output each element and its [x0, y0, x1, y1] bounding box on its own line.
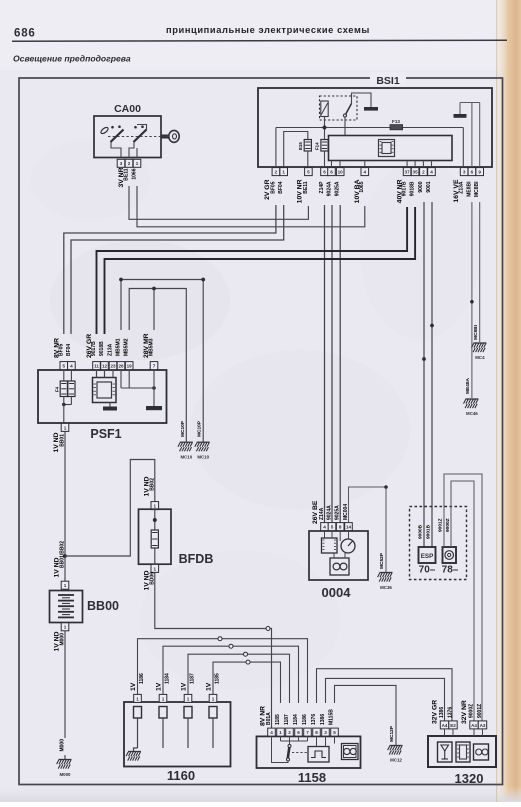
svg-text:ME48A: ME48A — [465, 377, 471, 394]
BSI1 pin 10 (9025A) — [336, 168, 344, 176]
svg-text:Z13A: Z13A — [459, 181, 465, 194]
svg-text:принципиальные электрические с: принципиальные электрические схемы — [166, 25, 370, 35]
svg-text:1: 1 — [64, 583, 67, 588]
component 1160 box — [124, 702, 231, 767]
svg-text:MC10P: MC10P — [197, 420, 203, 437]
junction right — [201, 278, 205, 282]
svg-text:1: 1 — [212, 696, 215, 701]
splice ME8BI — [470, 300, 474, 304]
wire BE11 CA00 to BSI1 — [129, 186, 308, 219]
svg-text:9018B: 9018B — [99, 341, 105, 356]
wire 9001/9001B — [431, 202, 433, 547]
BSI1 pin 5 (BE11) — [305, 168, 313, 176]
BSI1 IC stub to pin at x=331.5 — [331, 161, 333, 168]
svg-text:9017B: 9017B — [91, 341, 97, 356]
wire 1066/1065 CA00 to BSI1 — [137, 186, 365, 227]
CA00 key symbol — [162, 135, 169, 138]
CA00 contact 1 — [111, 130, 124, 143]
0004 pin 8 (9025A) — [336, 523, 344, 531]
svg-text:A3: A3 — [480, 723, 486, 728]
BSI1 IC chip — [379, 140, 395, 157]
svg-text:0004: 0004 — [322, 585, 352, 600]
svg-text:1158: 1158 — [298, 770, 326, 785]
BSI1 relay contact — [344, 114, 347, 117]
svg-text:1: 1 — [64, 425, 67, 430]
svg-text:35: 35 — [413, 170, 419, 175]
junction MB5M1 — [119, 278, 123, 282]
svg-text:7: 7 — [153, 364, 156, 369]
svg-text:9001B: 9001B — [426, 524, 432, 539]
svg-text:5: 5 — [333, 730, 336, 735]
ground MC4 — [472, 343, 487, 352]
CA00 contact 2 — [134, 130, 147, 143]
fuse F13 — [390, 125, 403, 130]
0004 lamp box — [330, 558, 349, 575]
BSI1 relay contact top wire to ground — [352, 93, 372, 107]
PSF1 pin 19 (MB5M2) — [125, 362, 133, 370]
svg-text:F13: F13 — [392, 119, 400, 124]
1160 pin 1 (wire 1186) — [134, 694, 142, 702]
svg-text:CA00: CA00 — [114, 103, 141, 115]
PSF1 MB5M ground bus — [120, 370, 122, 388]
svg-text:1185: 1185 — [214, 673, 220, 684]
svg-text:23: 23 — [110, 364, 116, 369]
svg-text:9018B: 9018B — [410, 181, 416, 196]
riser to pin 3 Z13A — [462, 128, 464, 168]
svg-text:1320: 1320 — [455, 771, 484, 786]
0004 pin 4 (Z14A) — [321, 523, 329, 531]
BSI1 pin 6 (9024A) — [328, 168, 336, 176]
svg-text:MC10P: MC10P — [180, 420, 186, 437]
wire 9018B to PSF1 (thick) — [105, 207, 416, 334]
svg-text:9000Z: 9000Z — [468, 704, 474, 718]
junction inside BFDB — [153, 518, 157, 522]
svg-text:1376: 1376 — [311, 714, 317, 725]
PSF1 pin 23 (Z13A) — [109, 362, 117, 370]
svg-text:9024A: 9024A — [327, 505, 333, 520]
ABS box (page 78) — [443, 547, 457, 563]
svg-text:1186: 1186 — [139, 673, 145, 684]
svg-text:3: 3 — [120, 161, 123, 166]
svg-text:9001Z: 9001Z — [438, 518, 444, 532]
1158 pin 5 (M115B) — [331, 728, 339, 736]
svg-text:1: 1 — [136, 161, 139, 166]
svg-text:1: 1 — [154, 504, 157, 509]
svg-text:A4: A4 — [442, 723, 448, 728]
svg-text:F14: F14 — [315, 142, 320, 150]
splice 9001/9001Z — [430, 324, 434, 328]
wire ME8BI/ME48A — [471, 202, 473, 398]
wire BB01 PSF1 to BB00 — [64, 431, 66, 581]
ground inside 1160 — [126, 752, 141, 761]
1158 pin 3 (1386) — [322, 728, 330, 736]
svg-text:PSF1: PSF1 — [90, 427, 121, 441]
ground bus MB5M2/MB5M3 line — [129, 289, 186, 442]
corner junction MC004 — [384, 485, 388, 489]
svg-text:70–: 70– — [419, 565, 436, 576]
BSI1 pin 4 (1065) — [361, 168, 369, 176]
1158 pin 6 (1184) — [295, 728, 303, 736]
svg-text:9000: 9000 — [418, 181, 424, 192]
riser to pin 2 BF05 — [275, 128, 277, 168]
BSI1 output IC box — [329, 136, 453, 161]
svg-text:A4: A4 — [471, 723, 477, 728]
svg-text:MC36: MC36 — [380, 585, 392, 590]
svg-text:BSI1: BSI1 — [376, 75, 400, 87]
wire Z14P to pin 6 — [324, 151, 326, 168]
svg-text:MC46: MC46 — [466, 411, 478, 416]
svg-text:1386: 1386 — [320, 714, 326, 725]
svg-text:4: 4 — [323, 525, 326, 530]
wire 9000/9000B — [423, 202, 425, 547]
BSI1 IC stub to pin at x=423.4 — [422, 161, 424, 168]
1320 pin A3 (9001Z) — [478, 721, 486, 729]
svg-text:BB02: BB02 — [149, 478, 155, 491]
1158 coil symbol — [342, 744, 359, 760]
svg-text:9025A: 9025A — [335, 505, 341, 520]
BSI1 pin 35 (9018B) — [411, 168, 419, 176]
svg-text:MC10: MC10 — [180, 455, 192, 460]
wire BD06 to 1158 — [155, 572, 266, 628]
svg-text:1V: 1V — [155, 682, 162, 691]
component BB00 (battery) — [61, 581, 69, 589]
svg-text:9: 9 — [478, 170, 481, 175]
svg-text:BE11: BE11 — [124, 168, 130, 180]
BSI1 pin 2 (9000) — [420, 168, 428, 176]
svg-text:6: 6 — [323, 170, 326, 175]
glow plug element at x=137.5 — [134, 707, 142, 719]
svg-text:BFDB: BFDB — [179, 552, 214, 566]
wire Z14P/Z14A column — [324, 205, 326, 523]
svg-text:1386: 1386 — [439, 707, 445, 718]
svg-text:M000: M000 — [60, 772, 72, 777]
svg-text:1: 1 — [136, 696, 139, 701]
BSI1 relay contact bottom wire — [344, 117, 346, 136]
svg-text:3: 3 — [324, 730, 327, 735]
svg-text:1: 1 — [64, 625, 67, 630]
BSI1 internal ground bar right of relay — [364, 107, 378, 111]
component PSF1 box — [38, 370, 167, 423]
ground MC12 — [388, 746, 403, 755]
svg-text:MC52P: MC52P — [379, 552, 385, 569]
svg-text:MC4: MC4 — [475, 355, 485, 360]
svg-text:9000B: 9000B — [418, 524, 424, 539]
svg-text:Z14P: Z14P — [319, 181, 325, 194]
svg-text:4: 4 — [70, 364, 73, 369]
wire 1386 to 1320 — [326, 678, 445, 721]
svg-text:37: 37 — [405, 170, 411, 175]
1158 timer logic box — [308, 747, 329, 763]
component BFDB (fuse holder) — [151, 502, 159, 510]
dashed reference box (ESP / ABS pages 70,78) — [410, 507, 467, 580]
svg-text:7: 7 — [306, 730, 309, 735]
wire M000 to ground — [64, 631, 66, 738]
svg-text:B01A: B01A — [266, 712, 272, 725]
BSI1 IC stub to pin at x=415.1 — [414, 161, 416, 168]
svg-text:M115B: M115B — [328, 709, 334, 725]
BSI1 right internal ground (pins 6,9) — [471, 103, 473, 168]
BSI1 IC stub to pin at x=407.1 — [406, 161, 408, 168]
svg-text:BB01: BB01 — [59, 434, 65, 447]
ground MC10 left — [178, 442, 193, 451]
1158 pin 1 (1185) — [277, 728, 285, 736]
1320 twin-circle symbol — [474, 744, 489, 760]
svg-text:78–: 78– — [442, 565, 459, 576]
connector 1186 — [218, 637, 222, 641]
wire 1184 (1158 pin6 to 1160) — [163, 646, 299, 703]
svg-text:9001: 9001 — [426, 181, 432, 192]
svg-text:1160: 1160 — [167, 768, 195, 783]
svg-text:8: 8 — [339, 525, 342, 530]
svg-text:BF05: BF05 — [58, 344, 64, 356]
glow plug element at x=213 — [209, 707, 217, 719]
1320 pin A4 (1386) — [440, 721, 448, 729]
svg-text:1: 1 — [154, 566, 157, 571]
PSF1 pin 26 (MB5M1) — [117, 362, 125, 370]
wire 9017B to PSF1 (thick) — [97, 207, 408, 334]
PSF1 pin 7 (MB5M3) — [150, 362, 158, 370]
1160 pin 1 (wire 1184) — [159, 694, 167, 702]
1160 pin 1 (wire 1187) — [184, 694, 192, 702]
svg-text:1065: 1065 — [359, 181, 365, 192]
junction BB00 top — [63, 554, 67, 558]
1320 pin E2 (1376) — [449, 721, 457, 729]
BSI1 pin 6 (ME8BI) — [468, 168, 476, 176]
svg-text:32V GR: 32V GR — [431, 700, 438, 724]
BSI1 title — [370, 73, 406, 86]
wire BF04 to PSF1 — [71, 205, 284, 334]
svg-text:5: 5 — [331, 525, 334, 530]
BSI1 relay coil — [321, 101, 328, 117]
svg-text:4: 4 — [430, 170, 433, 175]
ground bus MB5M1 line — [121, 280, 203, 442]
wire MB5M3 riser — [153, 289, 155, 331]
0004 pin 14 (MC004) — [345, 523, 353, 531]
1320 injector symbol — [438, 742, 453, 762]
1320 IC symbol — [456, 742, 470, 762]
svg-text:E2: E2 — [450, 723, 456, 728]
BSI1 IC stub to pin at x=431.5 — [431, 161, 433, 168]
connector on BD06 wire — [266, 627, 270, 631]
1320 pin A4 (9000Z) — [470, 721, 478, 729]
svg-text:MB5M2: MB5M2 — [124, 338, 130, 356]
svg-text:1: 1 — [187, 696, 190, 701]
wire 1376 to 1320 — [317, 669, 453, 721]
svg-text:E15: E15 — [298, 142, 303, 150]
svg-text:Освещение предподогрева: Освещение предподогрева — [13, 54, 131, 64]
svg-text:MC8BI: MC8BI — [473, 324, 479, 340]
svg-text:1376: 1376 — [447, 707, 453, 718]
svg-text:1184: 1184 — [164, 673, 170, 684]
svg-text:9001Z: 9001Z — [477, 704, 483, 718]
PSF1 IC ground — [109, 403, 111, 407]
svg-text:9025A: 9025A — [335, 181, 341, 196]
0004 pin 5 (9024A) — [328, 523, 336, 531]
BSI1 coil bottom wire — [324, 117, 326, 140]
1158 pin 2 (1187) — [286, 728, 294, 736]
svg-text:1187: 1187 — [189, 673, 195, 684]
svg-text:MC12: MC12 — [390, 758, 402, 763]
ESP box — [419, 547, 436, 563]
BSI1 pin 1 (BF04) — [280, 168, 288, 176]
wires 9001Z / 9000Z to 1320 — [444, 474, 482, 721]
svg-text:14: 14 — [346, 525, 352, 530]
PSF1 pin 12 (9018B) — [101, 362, 109, 370]
connector 1184 — [229, 644, 233, 648]
CA00 internal legs — [111, 142, 121, 158]
svg-text:2: 2 — [288, 730, 291, 735]
svg-text:MC10: MC10 — [197, 455, 209, 460]
ground MC36 — [378, 573, 393, 582]
svg-text:3: 3 — [463, 170, 466, 175]
svg-text:2: 2 — [275, 170, 278, 175]
svg-text:BB00: BB00 — [87, 599, 119, 613]
svg-text:Z14A: Z14A — [319, 507, 325, 520]
wire BB02 to BFDB — [65, 460, 155, 557]
svg-text:9017B: 9017B — [402, 181, 408, 196]
BSI1 internal relay dashed box — [320, 96, 358, 120]
svg-text:1V: 1V — [180, 682, 187, 691]
wire 1187 (1158 pin2 to 1160) — [188, 654, 290, 703]
wire 9024A column — [331, 205, 333, 523]
1158 pin 8 (1376) — [313, 728, 321, 736]
junction at coil/Z14P — [323, 126, 327, 130]
svg-text:2: 2 — [422, 170, 425, 175]
svg-text:2: 2 — [128, 161, 131, 166]
svg-text:BF04: BF04 — [278, 181, 284, 193]
PSF1 pin 1 bottom — [61, 423, 69, 431]
svg-text:4: 4 — [364, 170, 367, 175]
svg-text:1: 1 — [162, 696, 165, 701]
BF04 to E15 to BE11 internal path — [284, 132, 308, 168]
junction MB5M3 — [152, 287, 156, 291]
svg-text:9000Z: 9000Z — [445, 518, 451, 532]
svg-text:26: 26 — [118, 364, 124, 369]
svg-text:6: 6 — [297, 730, 300, 735]
CA00 pin row — [117, 159, 125, 167]
CA00 dashed actuator line — [108, 136, 163, 138]
svg-text:4: 4 — [270, 730, 273, 735]
svg-text:ME8BI: ME8BI — [466, 181, 472, 197]
0004 MC004 ground path — [349, 487, 387, 572]
1158 pin 4 (B01A) — [268, 728, 276, 736]
glow plug element at x=188 — [184, 707, 192, 719]
BSI1 IC stub to pin at x=364.8 — [364, 161, 366, 168]
svg-text:686: 686 — [14, 28, 36, 40]
1160 pin 1 (wire 1185) — [209, 694, 217, 702]
svg-text:MC8BI: MC8BI — [474, 181, 480, 197]
fuse F14 on Z14P wire — [321, 140, 328, 152]
PSF1 pin 5 (BF05) — [60, 362, 68, 370]
wire 1186 (1158 pin7 to 1160) — [138, 639, 308, 703]
svg-text:F4: F4 — [55, 386, 60, 392]
svg-text:ESP: ESP — [421, 553, 434, 560]
wire B01A to 1158 pin 4 — [270, 629, 272, 728]
svg-text:12: 12 — [102, 364, 108, 369]
BB00 bottom pin — [61, 623, 69, 631]
svg-text:6: 6 — [471, 170, 474, 175]
BSI1 pin 2 (BF05) — [272, 168, 280, 176]
0004 gauge — [341, 539, 355, 553]
svg-text:32V NR: 32V NR — [461, 700, 468, 724]
component 1158 box — [257, 736, 361, 768]
svg-text:MC12P: MC12P — [389, 725, 395, 742]
header rule — [12, 40, 507, 41]
svg-text:1066: 1066 — [132, 168, 138, 179]
PSF1 pin 4 (BF04) — [68, 362, 76, 370]
BSI1 pin 9 (MC8BI) — [476, 168, 484, 176]
svg-text:1V: 1V — [130, 682, 137, 691]
svg-text:1: 1 — [279, 730, 282, 735]
svg-text:BE11: BE11 — [303, 181, 309, 193]
svg-text:1V: 1V — [205, 682, 212, 691]
page crease line — [496, 0, 497, 802]
wire 9025A column — [339, 205, 341, 523]
ground MC10 right — [195, 442, 210, 451]
glow plug element at x=163 — [159, 707, 167, 719]
component 1320 box — [428, 736, 496, 767]
BSI1 pin 37 (9017B) — [403, 168, 411, 176]
plug ground link — [134, 748, 138, 751]
svg-text:5: 5 — [63, 364, 66, 369]
BSI1 internal bus with F13 — [276, 127, 463, 129]
svg-text:6: 6 — [330, 170, 333, 175]
svg-text:MB5M3: MB5M3 — [149, 338, 155, 356]
svg-text:1: 1 — [282, 170, 285, 175]
wire BF05 to PSF1 — [64, 205, 276, 334]
wire MC8BI — [479, 202, 481, 342]
svg-text:1185: 1185 — [275, 714, 281, 725]
wire 1185 (1158 pin1 to 1160) — [213, 662, 281, 703]
svg-text:BF05: BF05 — [270, 181, 276, 193]
svg-text:1186: 1186 — [302, 714, 308, 725]
junction F4 out — [62, 403, 66, 407]
ground MC46 — [464, 399, 479, 408]
BSI1 pin 4 (9001) — [428, 168, 436, 176]
svg-text:5: 5 — [307, 170, 310, 175]
component BSI1 box — [258, 88, 492, 167]
svg-text:10: 10 — [338, 170, 344, 175]
svg-text:9024A: 9024A — [326, 181, 332, 196]
ground M000 — [57, 760, 72, 769]
connector 1187 — [244, 652, 248, 656]
svg-text:Z13A: Z13A — [108, 343, 114, 356]
svg-text:19: 19 — [127, 364, 133, 369]
svg-text:11: 11 — [94, 364, 99, 369]
svg-text:BB01/BB02: BB01/BB02 — [60, 541, 66, 568]
BSI1 pin 6 (Z14P) — [321, 168, 329, 176]
component 0004 box — [309, 531, 368, 580]
PSF1 pin 11 (9017B) — [93, 362, 101, 370]
splice 9000/9000Z — [422, 357, 426, 361]
PSF1 fuse F4 branch — [63, 370, 65, 381]
svg-text:M000: M000 — [60, 739, 66, 752]
1158 internal relay — [281, 736, 308, 741]
0004 IC — [322, 538, 338, 553]
svg-text:1187: 1187 — [284, 714, 290, 725]
svg-text:1184: 1184 — [293, 714, 299, 725]
svg-text:MB5M1: MB5M1 — [116, 338, 122, 356]
connector 1185 — [246, 660, 250, 664]
BSI1 pin 3 (Z13A) — [460, 168, 468, 176]
PSF1 IC — [93, 378, 117, 403]
svg-text:8: 8 — [315, 730, 318, 735]
BSI1 IC stub to pin at x=340 — [339, 161, 341, 168]
1158 pin 7 (1186) — [304, 728, 312, 736]
svg-text:BF04: BF04 — [66, 344, 72, 356]
wire M115B to ground MC12 — [335, 685, 397, 745]
CA00 lock oval — [100, 126, 109, 134]
